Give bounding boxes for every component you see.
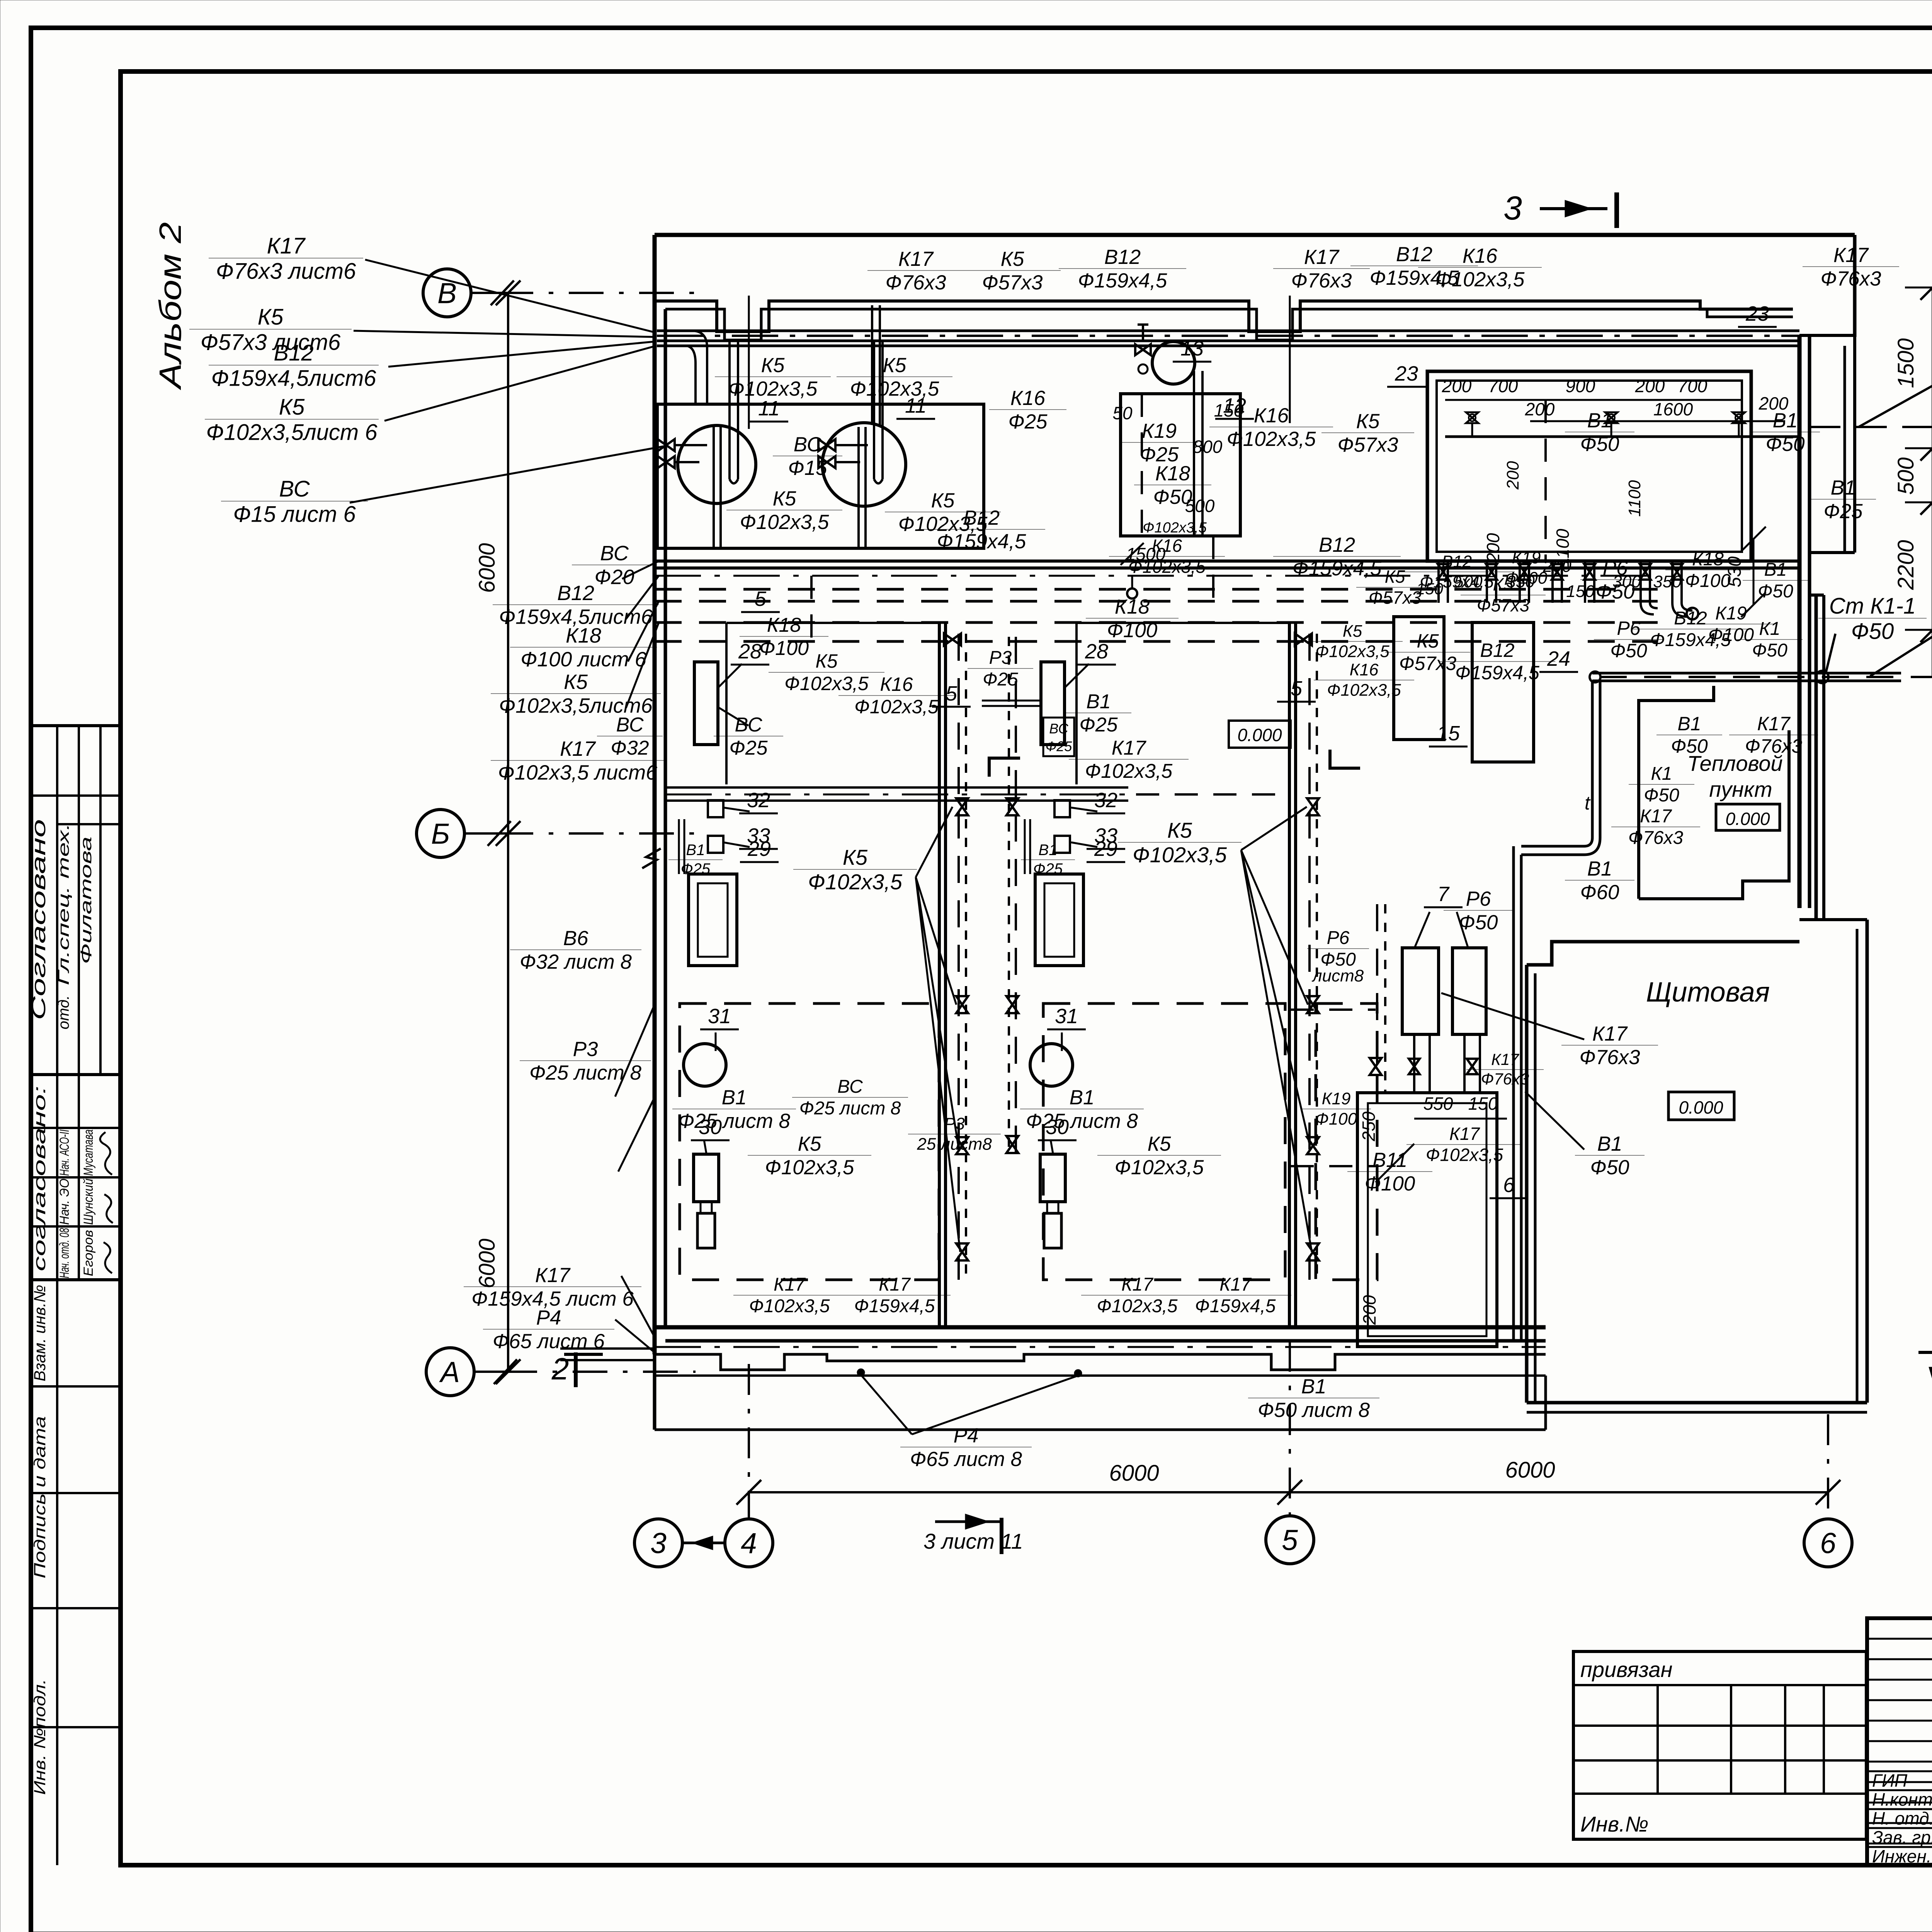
svg-text:Ф50: Ф50: [1644, 785, 1679, 806]
bay 1 dashed: [680, 1003, 939, 1280]
svg-text:3: 3: [650, 1527, 667, 1559]
svg-text:В12: В12: [1480, 639, 1515, 661]
svg-text:Ф76x3: Ф76x3: [1291, 269, 1352, 292]
circle 31: [684, 1044, 726, 1086]
svg-text:11: 11: [905, 394, 927, 417]
svg-text:К16: К16: [1152, 536, 1182, 556]
svg-text:Ф76x3: Ф76x3: [1745, 735, 1802, 757]
right vertical dimension chain: [1932, 287, 1932, 677]
title block stamp: [1867, 1618, 1932, 1865]
svg-text:Альбом 2: Альбом 2: [153, 222, 187, 390]
svg-text:Ф25: Ф25: [729, 737, 768, 759]
svg-text:Р6: Р6: [1603, 557, 1628, 580]
svg-text:200: 200: [1442, 376, 1472, 396]
svg-text:Ф100: Ф100: [1505, 568, 1548, 587]
svg-text:Ф76x3: Ф76x3: [1820, 267, 1881, 290]
bay room 2 outline: [1077, 623, 1289, 784]
room 23: [1427, 371, 1751, 561]
svg-text:В12: В12: [1396, 243, 1432, 266]
svg-text:30: 30: [699, 1116, 722, 1139]
svg-text:В11: В11: [1372, 1149, 1407, 1172]
svg-text:Ф100 лист 6: Ф100 лист 6: [520, 648, 646, 671]
svg-text:1100: 1100: [1625, 480, 1644, 517]
svg-text:Ф50: Ф50: [1580, 433, 1619, 456]
svg-text:11: 11: [758, 397, 780, 420]
svg-text:К17: К17: [267, 233, 306, 259]
svg-text:Ф159x4,5: Ф159x4,5: [1078, 269, 1167, 292]
svg-text:50: 50: [1112, 403, 1133, 423]
tank room box: [657, 404, 984, 548]
svg-text:6000: 6000: [1505, 1458, 1555, 1483]
P6 vertical dashed: [1376, 904, 1378, 1094]
svg-text:7: 7: [1437, 883, 1450, 906]
svg-text:32: 32: [747, 789, 770, 812]
svg-text:В1: В1: [722, 1086, 747, 1109]
svg-text:Ф102x3,5: Ф102x3,5: [1097, 1296, 1178, 1316]
svg-text:В6: В6: [563, 927, 588, 950]
svg-text:К16: К16: [880, 673, 913, 695]
svg-text:ГИП: ГИП: [1872, 1770, 1908, 1791]
elbows to band: [1641, 603, 1658, 614]
vertical pipes bay centers from middle band: [810, 576, 813, 653]
svg-text:Ф159x4,5: Ф159x4,5: [937, 530, 1026, 553]
svg-text:К5: К5: [883, 354, 906, 377]
svg-text:ВС: ВС: [279, 476, 310, 502]
svg-text:Инв. №подл.: Инв. №подл.: [31, 1679, 49, 1795]
axis 5: [1266, 1516, 1314, 1564]
box 15: [1394, 617, 1444, 740]
leader VS25 from box28: [718, 707, 748, 726]
leaders from lower-left labels: [615, 1005, 655, 1097]
svg-text:31: 31: [1055, 1005, 1078, 1028]
dim 530: [1753, 539, 1755, 605]
left vertical dimension 6000 x2: [507, 293, 509, 1372]
svg-text:Р4: Р4: [536, 1306, 561, 1329]
svg-text:В1: В1: [1587, 857, 1612, 880]
svg-text:К16: К16: [1350, 660, 1379, 679]
dashdot below bottom wall: [655, 1346, 1546, 1348]
axis 3: [634, 1519, 682, 1567]
leaders 28/32/33: [718, 664, 742, 688]
svg-text:Ф25: Ф25: [1079, 714, 1118, 736]
svg-text:6000: 6000: [474, 1238, 500, 1288]
svg-text:Подпись и дата: Подпись и дата: [31, 1416, 49, 1578]
svg-text:200: 200: [1503, 461, 1522, 490]
equipment 28: [694, 662, 718, 745]
bay 2 dashed: [1043, 1003, 1285, 1280]
svg-text:29: 29: [1094, 837, 1117, 861]
middle pipe band B12: [655, 560, 1799, 563]
corner marks: [989, 758, 1020, 777]
svg-text:К19: К19: [1142, 420, 1177, 442]
svg-text:29: 29: [747, 837, 771, 861]
top bundle leaders to left labels: [365, 260, 655, 332]
svg-text:Ф159x4,5лист6: Ф159x4,5лист6: [211, 366, 376, 391]
leader 7 to boilers: [1414, 912, 1430, 949]
svg-text:Ф102x3,5: Ф102x3,5: [1115, 1156, 1204, 1179]
svg-text:Инв.№: Инв.№: [1580, 1812, 1648, 1836]
svg-text:30: 30: [1046, 1116, 1069, 1139]
svg-text:Р3: Р3: [573, 1038, 598, 1061]
svg-text:Ф102x3,5: Ф102x3,5: [1128, 556, 1206, 577]
svg-text:Взам. инв.№: Взам. инв.№: [31, 1285, 49, 1381]
svg-text:Филатова: Филатова: [78, 837, 95, 964]
B1 pipe in room 23: [1445, 435, 1799, 438]
svg-text:Р4: Р4: [954, 1424, 979, 1447]
svg-text:Ф100: Ф100: [1107, 619, 1158, 642]
privyazan table: [1573, 1651, 1866, 1839]
svg-text:Ф102x3,5: Ф102x3,5: [784, 673, 869, 694]
svg-text:К17: К17: [1304, 246, 1340, 269]
wall break zigzag: [642, 849, 661, 868]
svg-text:К5: К5: [564, 670, 588, 694]
svg-text:К17: К17: [535, 1264, 571, 1287]
teplovoy punkt walls: [1639, 686, 1789, 899]
svg-text:Ф76x3: Ф76x3: [1481, 1070, 1529, 1088]
svg-text:Ф57x3 лист6: Ф57x3 лист6: [201, 330, 341, 355]
svg-text:24: 24: [1547, 647, 1570, 670]
svg-text:В1: В1: [1587, 409, 1612, 432]
vertical pipe pair bay1 top: [871, 305, 873, 425]
vs25 boxed small: [1043, 718, 1074, 756]
svg-text:К5: К5: [1356, 410, 1380, 433]
svg-text:В1: В1: [1086, 690, 1111, 713]
svg-text:150: 150: [1214, 400, 1244, 420]
svg-text:Нач. отд. 08: Нач. отд. 08: [57, 1228, 72, 1278]
svg-text:К18: К18: [1115, 595, 1150, 618]
svg-text:К5: К5: [1001, 248, 1024, 270]
svg-text:В1: В1: [1831, 476, 1856, 499]
svg-text:Ф50: Ф50: [1459, 911, 1498, 934]
vertical dashed x4000 in 23: [1544, 400, 1547, 561]
K18 drop: [1212, 536, 1214, 603]
svg-text:Ф32: Ф32: [611, 737, 649, 759]
svg-text:Ф76x3: Ф76x3: [1579, 1046, 1640, 1069]
svg-text:Шунский: Шунский: [81, 1179, 96, 1225]
axis stubs through top band: [748, 296, 750, 429]
bay divider 2: [1288, 623, 1291, 1327]
svg-text:200: 200: [1525, 399, 1555, 419]
axis А: [426, 1348, 474, 1396]
svg-text:ВС: ВС: [1049, 721, 1068, 736]
svg-text:К19: К19: [1322, 1089, 1351, 1108]
svg-text:Ф25: Ф25: [1008, 410, 1048, 433]
svg-text:350: 350: [1653, 572, 1682, 591]
svg-text:В12: В12: [963, 507, 1000, 529]
svg-text:Ф15 лист 6: Ф15 лист 6: [233, 502, 356, 527]
svg-text:Ф57x3: Ф57x3: [982, 271, 1043, 294]
svg-text:32: 32: [1094, 789, 1117, 812]
top pipe bundle: [657, 330, 1799, 332]
boilers 7: [1402, 948, 1439, 1034]
dash connections bay3-room6: [1291, 1009, 1376, 1011]
svg-text:Ф159x4,5: Ф159x4,5: [1455, 662, 1539, 684]
tank 12 box: [1121, 394, 1240, 536]
dip tubes: [730, 340, 738, 483]
dashed K5 line: [655, 640, 1658, 643]
svg-text:6000: 6000: [1109, 1461, 1159, 1486]
svg-text:В1: В1: [1597, 1133, 1622, 1155]
svg-text:К18: К18: [566, 624, 601, 647]
svg-text:отд.: отд.: [55, 995, 72, 1029]
svg-text:2: 2: [551, 1352, 569, 1386]
svg-text:0.000: 0.000: [1725, 809, 1770, 829]
svg-text:Ф159x4,5: Ф159x4,5: [1420, 572, 1494, 591]
svg-text:Ст К1-1: Ст К1-1: [1829, 594, 1916, 619]
svg-text:К5: К5: [1417, 630, 1439, 652]
circle 13: [1152, 342, 1195, 384]
svg-text:К18: К18: [1155, 462, 1190, 485]
svg-text:К5: К5: [258, 304, 284, 330]
svg-text:Ф50: Ф50: [1752, 640, 1787, 661]
svg-text:Ф102x3,5: Ф102x3,5: [1327, 680, 1401, 699]
svg-text:Б: Б: [431, 817, 450, 850]
svg-text:К5: К5: [761, 354, 785, 377]
svg-text:Ф102x3,5: Ф102x3,5: [765, 1156, 854, 1179]
svg-text:К17: К17: [1592, 1022, 1628, 1045]
svg-text:500: 500: [1893, 457, 1918, 495]
svg-text:Ф57x3: Ф57x3: [1477, 595, 1530, 615]
svg-text:К17: К17: [898, 248, 934, 270]
squares 32 33: [1054, 800, 1070, 817]
K1 pipe exit: [1592, 672, 1901, 675]
svg-text:К5: К5: [1385, 566, 1405, 587]
svg-text:t: t: [1585, 792, 1591, 814]
svg-text:Ф57x3: Ф57x3: [1369, 587, 1422, 607]
bay room 1 outline: [726, 623, 939, 784]
svg-text:28: 28: [738, 640, 762, 663]
svg-text:Ф102x3,5 лист6: Ф102x3,5 лист6: [498, 761, 658, 784]
arrow between 3 and 4: [682, 1542, 725, 1544]
svg-text:Ф65 лист 6: Ф65 лист 6: [493, 1330, 605, 1353]
boiler pipes down: [1413, 1034, 1415, 1094]
tank valves: [658, 439, 675, 451]
svg-text:700: 700: [1488, 376, 1518, 396]
svg-text:В1: В1: [1773, 409, 1798, 432]
svg-text:Егоров: Егоров: [81, 1230, 96, 1276]
bay divider 1: [938, 623, 941, 1327]
svg-text:В12: В12: [274, 340, 313, 366]
svg-text:Ф25 лист 8: Ф25 лист 8: [678, 1110, 791, 1133]
svg-text:Ф100: Ф100: [1315, 1109, 1357, 1128]
svg-text:Ф102x3,5: Ф102x3,5: [1315, 642, 1389, 661]
svg-text:Ф25: Ф25: [1033, 861, 1063, 878]
svg-text:К18: К18: [1692, 549, 1724, 570]
svg-text:К17: К17: [560, 737, 596, 760]
svg-text:800: 800: [1193, 437, 1223, 457]
bottom apron lines: [655, 1354, 1546, 1370]
svg-text:Ф100: Ф100: [1365, 1172, 1415, 1195]
K16 valve detail: [1135, 344, 1151, 355]
K17 line on axis B: [665, 786, 1128, 789]
0.000 box tp: [1716, 804, 1780, 830]
svg-text:Н. отд.: Н. отд.: [1872, 1808, 1932, 1828]
svg-text:500: 500: [1185, 496, 1215, 516]
svg-text:ВС: ВС: [837, 1077, 863, 1097]
svg-text:Ф102x3,5: Ф102x3,5: [1133, 843, 1227, 867]
svg-text:Согласовано: Согласовано: [28, 819, 49, 1020]
svg-text:Ф102x3,5: Ф102x3,5: [808, 870, 903, 894]
svg-text:ВС: ВС: [794, 433, 822, 456]
svg-text:Ф25 лист 8: Ф25 лист 8: [529, 1061, 642, 1084]
svg-text:Ф57x3: Ф57x3: [1399, 653, 1456, 674]
horizontal pipe pair bay2 upper: [982, 700, 1039, 702]
manifold risers below room 23: [1437, 561, 1440, 603]
svg-text:Ф25: Ф25: [681, 861, 711, 878]
svg-text:К17: К17: [1112, 737, 1147, 759]
svg-text:23: 23: [1395, 362, 1418, 385]
axis Б: [417, 810, 464, 857]
svg-text:Щитовая: Щитовая: [1646, 977, 1770, 1008]
svg-text:Ф76x3: Ф76x3: [1628, 828, 1684, 848]
top exterior wall: [655, 233, 1855, 237]
leaders 30/31: [715, 1032, 717, 1051]
svg-text:Ф50: Ф50: [1610, 640, 1647, 662]
tank 11 left: [678, 425, 756, 503]
svg-text:согласовано:: согласовано:: [30, 1086, 49, 1271]
svg-text:В12: В12: [1104, 246, 1141, 269]
svg-text:Ф102x3,5: Ф102x3,5: [1426, 1145, 1503, 1165]
B-axis pipes right segment: [1136, 793, 1291, 796]
svg-text:К16: К16: [1463, 245, 1498, 267]
bottom wall: [655, 1325, 1546, 1330]
svg-text:Ф102x3,5лист 6: Ф102x3,5лист 6: [206, 420, 378, 445]
fan leaders bay2 K5: [1241, 807, 1312, 1252]
svg-text:Р6: Р6: [1617, 617, 1640, 639]
dashed K18 lines: [655, 588, 1658, 591]
svg-text:Ф102x3,5: Ф102x3,5: [1227, 428, 1316, 451]
right wall upper: [1798, 335, 1802, 908]
axis 4: [725, 1519, 773, 1567]
svg-text:ВС: ВС: [600, 542, 629, 565]
svg-text:700: 700: [1678, 376, 1708, 396]
svg-text:К5: К5: [1343, 622, 1362, 641]
svg-text:В12: В12: [1674, 608, 1707, 629]
K17 76x3 leader: [1441, 993, 1584, 1039]
svg-text:3 лист 11: 3 лист 11: [923, 1529, 1023, 1553]
svg-text:В1: В1: [1764, 560, 1787, 580]
svg-text:900: 900: [1566, 376, 1595, 396]
svg-text:150: 150: [1566, 582, 1595, 601]
svg-text:31: 31: [708, 1005, 731, 1028]
svg-text:4: 4: [741, 1527, 757, 1559]
svg-text:К5: К5: [1167, 818, 1192, 842]
tank 11 right: [822, 423, 906, 506]
svg-text:К5: К5: [815, 650, 837, 672]
svg-text:К19: К19: [1715, 603, 1747, 624]
svg-text:6000: 6000: [474, 543, 500, 593]
right annex lower: [1810, 594, 1824, 597]
svg-text:ВС: ВС: [616, 714, 644, 736]
P3 dashed column bay2: [1008, 637, 1010, 1155]
svg-text:Ф102x3,5: Ф102x3,5: [854, 696, 939, 718]
svg-text:К17: К17: [1833, 244, 1869, 267]
svg-text:Ф25: Ф25: [1823, 500, 1863, 523]
K18 circle marker mid band: [1127, 588, 1137, 599]
equipment 30: [1040, 1154, 1065, 1202]
svg-text:Ф50: Ф50: [1765, 433, 1805, 456]
svg-text:3: 3: [1503, 190, 1522, 227]
svg-text:Ф50: Ф50: [1590, 1156, 1629, 1179]
bay 3 dashed strip: [1316, 1003, 1377, 1280]
svg-text:К17: К17: [1449, 1124, 1480, 1144]
B1 risers bay1: [678, 819, 680, 874]
svg-text:Ф102x3,5: Ф102x3,5: [1143, 520, 1207, 536]
svg-text:Ф76x3: Ф76x3: [885, 271, 946, 294]
equipment 29: [689, 874, 737, 966]
svg-text:0.000: 0.000: [1237, 725, 1282, 745]
svg-text:Ф102x3,5: Ф102x3,5: [1435, 268, 1525, 291]
svg-text:150: 150: [1468, 1094, 1498, 1114]
sprinklers: [1466, 412, 1478, 437]
svg-text:2200: 2200: [1893, 540, 1918, 590]
svg-text:Ф100: Ф100: [1685, 571, 1731, 591]
svg-text:В12: В12: [1319, 534, 1355, 556]
svg-text:Ф76x3 лист6: Ф76x3 лист6: [216, 259, 356, 284]
svg-text:К5: К5: [1148, 1133, 1171, 1155]
svg-text:К17: К17: [879, 1274, 911, 1295]
svg-text:Нач. АСО-II: Нач. АСО-II: [57, 1129, 72, 1176]
svg-text:К5: К5: [931, 489, 955, 512]
fan leaders bay1 K5: [916, 807, 960, 1252]
svg-text:Зав. гр.: Зав. гр.: [1872, 1827, 1932, 1847]
svg-text:К5: К5: [798, 1133, 821, 1155]
svg-text:0.000: 0.000: [1679, 1097, 1723, 1117]
svg-text:К5: К5: [773, 487, 796, 510]
svg-text:15: 15: [1437, 722, 1460, 745]
equipment 30: [694, 1154, 719, 1202]
svg-text:Ф25 лист 8: Ф25 лист 8: [799, 1098, 901, 1119]
svg-text:25 лист8: 25 лист8: [917, 1134, 992, 1153]
svg-text:Инжен.: Инжен.: [1872, 1846, 1932, 1866]
svg-text:Н.контр.: Н.контр.: [1872, 1789, 1932, 1810]
svg-text:28: 28: [1085, 640, 1108, 663]
svg-text:Мусатава: Мусатава: [81, 1129, 96, 1176]
svg-text:550: 550: [1423, 1094, 1453, 1114]
svg-text:5: 5: [1282, 1524, 1298, 1556]
svg-text:К17: К17: [1491, 1050, 1519, 1068]
svg-text:1600: 1600: [1653, 399, 1693, 419]
equipment 29: [1035, 874, 1083, 966]
svg-text:Ф159x4,5: Ф159x4,5: [1195, 1296, 1276, 1316]
svg-text:В1: В1: [1301, 1375, 1327, 1398]
svg-text:Ф159x4,5: Ф159x4,5: [854, 1296, 935, 1316]
svg-text:200: 200: [1483, 533, 1503, 563]
svg-text:6: 6: [1820, 1527, 1836, 1559]
svg-text:Ф50: Ф50: [1758, 581, 1793, 602]
svg-text:К5: К5: [843, 845, 868, 869]
right annex top: [1799, 334, 1855, 337]
svg-text:250: 250: [1359, 1111, 1379, 1141]
svg-text:Ф25: Ф25: [983, 669, 1018, 690]
svg-text:Ф60: Ф60: [1580, 881, 1619, 904]
svg-text:К16: К16: [1010, 387, 1046, 410]
svg-text:К5: К5: [279, 395, 305, 420]
svg-text:Ф32 лист 8: Ф32 лист 8: [520, 951, 632, 973]
St K1-1: [1818, 594, 1927, 644]
band leader lines to left labels: [622, 561, 659, 579]
svg-text:В12: В12: [557, 582, 594, 605]
svg-text:Ф15: Ф15: [788, 457, 827, 480]
left wall: [653, 235, 657, 1354]
svg-text:Ф50 лист 8: Ф50 лист 8: [1258, 1399, 1370, 1422]
svg-text:1100: 1100: [1553, 529, 1573, 567]
svg-text:23: 23: [1745, 302, 1769, 325]
svg-text:В1: В1: [686, 842, 705, 859]
svg-text:Ф65 лист 8: Ф65 лист 8: [910, 1448, 1022, 1471]
svg-text:Гл.спец. тех.: Гл.спец. тех.: [55, 823, 72, 985]
svg-text:200: 200: [1635, 376, 1665, 396]
